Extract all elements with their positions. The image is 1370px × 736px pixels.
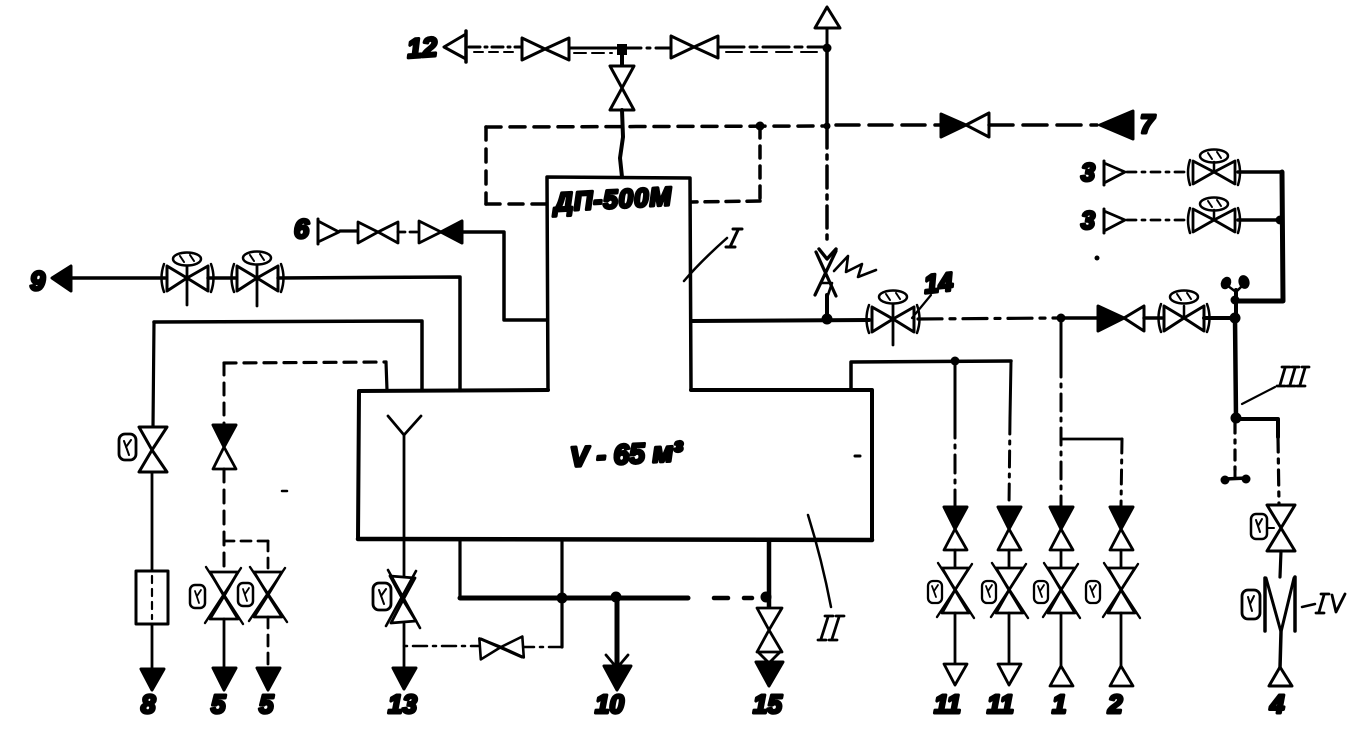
outlet arrow 5a [213,668,236,690]
air vent symbol [1219,274,1251,305]
wire chain1 out [1060,613,1063,666]
svg-text:15: 15 [753,689,782,719]
outlet arrow 12 [444,31,466,62]
svg-text:2: 2 [1107,689,1123,719]
wire dashed loop top [486,126,824,127]
label III with leader [1242,367,1309,404]
wire branch chain2 [1061,438,1122,441]
node J562 [557,593,568,604]
label 10 [595,689,624,719]
label 9 [30,266,45,296]
node J617 [611,592,622,603]
inlet triangle 2 [1110,666,1133,686]
wire chain8 drop [153,322,154,427]
wire line7 dashed seg a [836,123,941,127]
svg-text:3: 3 [1081,159,1095,187]
svg-text:11: 11 [934,689,961,719]
wire x1235 down [1235,318,1236,418]
wire chain11a drop [954,361,957,506]
handwheel box chain2 [1086,581,1100,603]
outlet triangle 11b [998,664,1021,685]
wire dashed loop right [758,126,762,201]
wire vent to main line [1234,301,1238,318]
label 7 [1140,109,1156,139]
valve chain1 top [1050,507,1073,550]
control valve CV3b [1188,198,1240,234]
wire chain2 out [1120,613,1123,666]
wire vessel drop x460 [458,540,461,598]
node J827top [823,44,832,53]
handwheel box IVa [1251,514,1274,539]
inlet triangle 1 [1050,666,1073,686]
svg-text:9: 9 [30,266,45,296]
outlet arrow 13 [393,668,416,689]
wire chain5b drop dashed [267,541,270,572]
wire IVa to IV [1280,551,1281,577]
wire line9 seg c with drop to vessel [278,277,460,390]
wire bottom header [460,596,752,601]
outlet arrow 7 [1100,111,1133,139]
valve chain11b bottom [991,563,1028,618]
svg-text:10: 10 [595,689,624,719]
wire chain5a mid dashed [223,469,226,572]
wire line6 seg b [398,231,419,234]
wire chain1 drop [1060,318,1063,506]
outlet arrow 8 [141,669,164,690]
check valve V7 [941,113,989,137]
handwheel box chain11a [928,581,942,603]
valve chain2 top [1110,507,1133,550]
svg-text:3: 3 [1081,207,1095,235]
wire x827 riser dashdot [825,126,829,246]
wire dashed loop bottom-left [486,202,547,206]
wire riser from vessel top [851,361,1011,390]
wire line3b dashdot [1127,219,1189,222]
valve IV big [1265,577,1295,632]
label 8 [141,689,156,719]
inlet arrow 9 [52,266,71,291]
instrument box DP-500M [547,177,691,390]
handwheel box chain5a [190,585,205,608]
outlet triangle 4 [1269,667,1292,686]
valve chain11a bottom [937,563,974,618]
wire check to gate [1144,316,1162,320]
gate valve with actuator [1159,291,1210,333]
valve V12a [522,38,569,60]
handwheel box IV [1242,590,1260,619]
inlet arrow 6 [318,219,339,244]
label 5a [211,689,226,719]
node J827main [822,314,833,325]
valve chain2 bottom [1103,563,1140,618]
svg-text:5: 5 [259,689,274,719]
svg-text:7: 7 [1140,109,1156,139]
wire chain2 mid [1120,550,1123,568]
label IV with dash [1302,594,1345,613]
speck near vessel [855,455,860,458]
control valve CV9a [162,253,214,306]
wire dashed loop bottom-right [692,201,760,202]
wire chain11b mid [1008,550,1011,568]
handwheel box chain1 [1034,581,1048,603]
svg-text:ДП-500М: ДП-500М [551,181,673,217]
svg-text:13: 13 [388,689,417,719]
relief valve SV [815,249,876,318]
label 1 [1052,689,1066,719]
label V=65m3 [569,436,684,473]
node J1279 [1276,216,1285,225]
svg-text:5: 5 [211,689,226,719]
label 14 with leader [912,266,955,318]
wire chain11a mid [954,550,957,568]
label 15 [753,689,782,719]
svg-text:1: 1 [1052,689,1066,719]
wire right riser x1282 [1238,172,1283,301]
valve V6a [358,222,398,243]
handwheel box chain13 [373,583,391,610]
wire dashdot to valve IVa [1278,437,1279,505]
svg-text:4: 4 [1269,689,1285,719]
label 2 [1107,689,1123,719]
wire chain11a out [954,613,957,665]
valve V12c vertical below J622 [610,55,634,110]
wire line9 seg a [71,276,165,280]
wire main dashdot [918,318,1058,319]
label 4 [1269,689,1285,719]
drain valve small [479,635,523,660]
label 3 upper [1081,159,1095,187]
valve chain13 [386,570,420,628]
check valve main [1098,306,1144,331]
vessel V=65m3 outline [358,390,872,540]
wire line9 seg b [208,276,236,280]
control valve CV9b [232,252,284,307]
valve chain15 [757,608,782,652]
handwheel box chain11b [982,581,996,603]
wire capped stub dashdot [1233,423,1236,471]
node J622 [617,44,627,55]
wire chain5a drop dashed [223,363,226,425]
inlet arrow 3 upper [1104,161,1125,185]
outlet arrow 5b [257,668,280,690]
valve chain5a bottom [205,567,243,624]
wire chain10 drop [615,598,620,664]
wire chain11b out [1008,613,1011,665]
label 3 lower [1081,207,1095,235]
valve chain5a top [213,425,236,469]
flow restrictor chain8 [136,571,168,624]
wire gate to corner [1204,316,1232,320]
svg-text:V - 65 м³: V - 65 м³ [569,436,684,473]
valve chain11b top [998,507,1021,550]
outlet arrow 15 double [756,652,783,686]
wire stem to DP box [620,110,623,177]
wire dashed y362 [224,362,387,390]
node J418 [1231,413,1242,424]
wire dashdot chain13 to drain [404,646,562,647]
svg-text:6: 6 [294,214,310,244]
node J1235 [1230,313,1241,324]
valve chain8 [139,427,167,472]
handwheel box chain8 [119,434,136,460]
control valve CV3a [1188,150,1240,186]
svg-text:8: 8 [141,689,156,719]
wire line6 seg a [340,229,358,232]
wire line3b to riser [1238,218,1279,222]
node J955 [951,357,960,366]
wire chain8 out [151,624,154,669]
wire IV to outlet [1280,632,1281,668]
valve chain5b [249,567,287,622]
wire chain8 mid [151,472,154,571]
label II with leader [808,515,844,640]
valve chain1 bottom [1043,563,1080,618]
wire main to check valve [1061,316,1099,320]
svg-text:12: 12 [406,32,438,64]
label 5b [259,689,274,719]
vent arrow top [815,7,840,48]
wire dashed loop left [484,127,488,204]
label 6 [294,214,310,244]
wire y321 with drops [154,321,422,390]
node J764 [761,592,772,603]
speck left of vessel [282,490,287,493]
svg-text:11: 11 [987,689,1014,719]
wire chain1 mid [1060,550,1063,568]
capped end symbol [1221,471,1251,485]
suction funnel [388,416,421,576]
svg-text:14: 14 [922,266,954,299]
label 11b [987,689,1014,719]
wire chain13 out [403,624,406,668]
valve 14 with actuator [867,291,920,346]
wire chain2 drop [1121,439,1122,506]
wire branch to IV chain [1236,419,1278,437]
wire line7 dashed seg b [989,123,1097,127]
wire line12 seg b [569,48,616,53]
node J827mid [824,123,831,130]
handwheel box chain5b [238,583,253,606]
check valve V6b [419,221,462,243]
wire chain5b out dashed [267,617,270,668]
wire chain11b drop [1009,361,1011,506]
wire line3a to corner [1238,170,1282,174]
outlet arrow 10 double [604,655,631,690]
label 11a [934,689,961,719]
node J1061 [1057,314,1066,323]
wire x827 riser upper [825,48,829,126]
wire line3a dashdot [1127,171,1189,174]
valve chain11a top (arrow+seat) [944,507,967,550]
label 13 [388,689,417,719]
wire vessel drop x562 [560,540,563,647]
wire branch 5a-5b dashed [224,540,268,543]
valve V12b [671,36,718,58]
wire vessel drop x769 [767,540,772,608]
label 12 [406,32,438,64]
wire line6 to neck [462,232,547,320]
wire line12 seg d [718,47,823,52]
label DP-500M [551,181,673,217]
wire main line from neck [691,320,869,321]
speck near line7 [1095,256,1100,261]
label I with leader [684,229,742,281]
wire line12 seg a [469,47,521,52]
wire chain5a out [223,619,226,668]
valve IVa [1267,505,1295,551]
inlet arrow 3 lower [1104,209,1125,233]
wire line12 seg c [627,47,671,50]
node J759 [756,122,765,131]
outlet triangle 11a [944,664,967,685]
